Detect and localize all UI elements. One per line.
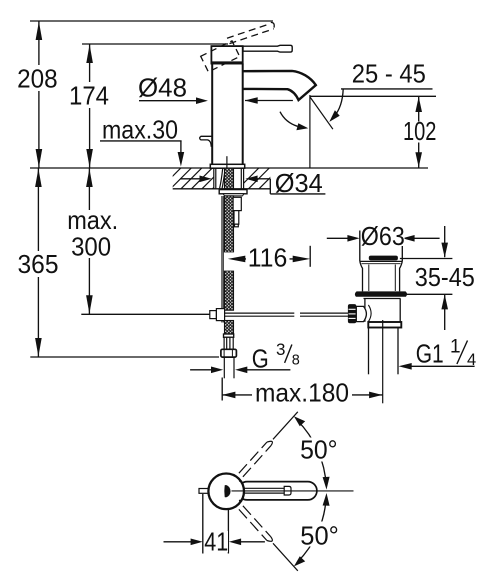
inner arc — [368, 305, 371, 322]
svg-text:Ø63: Ø63 — [361, 221, 405, 251]
label 365 — [15, 249, 61, 279]
label G1 1/4 — [416, 337, 476, 370]
braided hose upper segment — [225, 168, 234, 334]
mounting washer under counter — [219, 190, 247, 194]
dimension 102 — [415, 96, 422, 167]
arrowheads: vertical dims left — [35, 22, 93, 357]
svg-text:4: 4 — [467, 351, 476, 369]
horizontal linkage rod (thick, to drain) — [225, 313, 349, 316]
top view: lever stadium — [238, 482, 317, 500]
label Ø63 — [361, 221, 405, 251]
dimension 35-45 — [400, 226, 453, 330]
faucet base flange — [210, 164, 244, 168]
dimension max180 — [222, 378, 382, 401]
drain tailpipe — [369, 328, 399, 375]
svg-text:G: G — [252, 346, 269, 374]
svg-text:365: 365 — [18, 249, 59, 279]
supply hose end ferrule — [224, 334, 234, 337]
arrow 174 top — [86, 45, 93, 64]
faucet lever (solid) — [243, 45, 292, 52]
wire bottom 365 extension line — [30, 356, 219, 358]
drain shoulder — [360, 261, 403, 263]
counter hatch left — [160, 168, 233, 189]
svg-text:1: 1 — [450, 337, 461, 358]
dimension 25-45 underline — [341, 88, 433, 90]
svg-text:max.: max. — [67, 205, 118, 235]
drain upper body — [360, 261, 403, 291]
svg-text:116: 116 — [248, 242, 288, 272]
dimension 174 line — [89, 44, 91, 168]
top view: horizontal centerline — [232, 490, 354, 492]
water stream vertical line — [309, 95, 311, 168]
drain knurled knob — [348, 304, 356, 323]
top view: lever inner blade — [244, 486, 291, 495]
arrow 174 bottom — [86, 149, 93, 168]
arrow 25-45 at body — [245, 97, 293, 104]
arrow 208 top — [36, 22, 43, 41]
arrow 365 top — [35, 169, 42, 188]
hole edges in counter — [214, 168, 244, 189]
dimension G3/8 arrows — [190, 367, 290, 374]
spout — [244, 71, 316, 100]
pop-up rod knob at body — [200, 136, 213, 147]
top view: faucet body circle — [208, 474, 244, 510]
top view: upper 50 dashed handle — [239, 412, 298, 477]
svg-text:G1: G1 — [416, 340, 444, 368]
pop-up rod vertical — [222, 196, 223, 323]
wire extension line top (dashed-handle top level) — [30, 20, 273, 22]
dimension max300 line — [88, 168, 90, 314]
label 50 lower — [297, 521, 342, 551]
label max300 — [64, 205, 121, 262]
counter bottom line — [173, 188, 271, 190]
dimension Ø34 — [180, 176, 325, 194]
drain flange — [355, 291, 407, 298]
spout outlet extension line — [310, 95, 436, 97]
supply tube — [224, 357, 234, 378]
svg-text:8: 8 — [292, 353, 300, 369]
label 102 — [400, 116, 439, 146]
arrow 208 bottom — [36, 149, 43, 168]
label 116 — [246, 242, 290, 272]
counter top line — [30, 167, 428, 169]
faucet body — [212, 64, 243, 165]
svg-text:102: 102 — [403, 116, 437, 146]
arrow 365 bottom — [35, 338, 42, 357]
drain centerline — [382, 320, 384, 403]
svg-text:25 - 45: 25 - 45 — [352, 58, 426, 88]
faucet handle dashed (raised position): lever — [227, 24, 274, 44]
hose curving in hole — [220, 168, 223, 189]
wire extension line cap-top level — [82, 43, 228, 45]
svg-text:300: 300 — [71, 232, 111, 262]
drain knob hub — [356, 306, 366, 321]
top view: lower 50 dashed handle — [239, 506, 298, 571]
svg-text:208: 208 — [17, 64, 58, 94]
dimension 365 line — [37, 168, 39, 357]
faucet centerline at base — [226, 156, 228, 168]
svg-text:50°: 50° — [300, 521, 339, 551]
counter hatch right — [238, 168, 280, 189]
rod clamp blocks — [210, 309, 225, 321]
faucet cap dashed (rotated) — [201, 41, 240, 72]
curved arrow right (to diagonal) — [329, 89, 343, 122]
svg-text:Ø48: Ø48 — [138, 73, 187, 103]
label 35-45 — [412, 262, 478, 292]
dimension G1 1/4 arrow — [399, 363, 475, 370]
svg-text:174: 174 — [69, 81, 109, 111]
hose stub connector — [233, 197, 241, 227]
svg-text:50°: 50° — [300, 435, 338, 465]
supply nut G3/8 — [221, 349, 237, 357]
top view: cartridge slot (dark) — [224, 485, 230, 497]
dashed lever end cap — [271, 22, 274, 27]
drain lower body — [365, 299, 400, 322]
arc upper 50 — [294, 416, 330, 489]
arrow max.30 — [178, 152, 185, 167]
leader max.30 — [100, 141, 182, 158]
label 41 — [204, 527, 229, 557]
top view: junction dots — [239, 480, 241, 482]
svg-text:Ø34: Ø34 — [275, 168, 323, 198]
label 50 upper — [297, 435, 341, 465]
water stream diagonal line — [310, 97, 333, 129]
arc lower 50 — [294, 493, 330, 566]
curved arrow left (to vertical) — [280, 112, 308, 131]
svg-text:35-45: 35-45 — [415, 262, 475, 292]
label G3/8 — [252, 340, 300, 373]
label 174 — [67, 81, 112, 111]
label 208 — [15, 64, 60, 94]
supply hose hex — [224, 337, 233, 349]
label Ø34 — [273, 168, 325, 198]
horizontal pull rod (left thin) — [81, 313, 210, 315]
lower 50 solid line — [273, 543, 298, 571]
svg-text:3: 3 — [276, 340, 285, 359]
drain plug cap — [369, 256, 398, 261]
leader/arrow Ø48 — [139, 97, 208, 104]
mounting cone — [223, 194, 244, 196]
dimension 208 line — [38, 21, 40, 168]
upper 50 solid line — [273, 412, 298, 440]
top view: pop-up rod tab — [199, 489, 210, 494]
dimension 41 — [164, 494, 265, 554]
dimension 116 — [224, 246, 310, 271]
svg-text:41: 41 — [204, 527, 228, 557]
drain: dimension Ø63 — [327, 231, 440, 262]
faucet cap — [211, 46, 244, 63]
arrow max300 bottom — [86, 295, 93, 314]
svg-text:max.30: max.30 — [102, 114, 178, 144]
svg-text:max.180: max.180 — [255, 378, 349, 408]
drain bottom ring — [368, 322, 401, 328]
arrow max300 top — [86, 169, 93, 188]
